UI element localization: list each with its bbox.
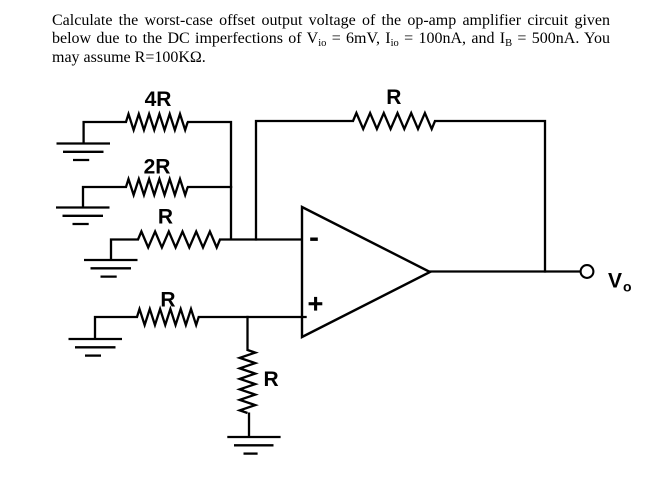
wire: feedback top right lead and down to output [434,121,545,273]
problem statement text [52,12,610,68]
wire: stub below vertical R [248,413,250,437]
wire: feedback branch vertical and top left lead [256,121,354,241]
wire: G4 stub and non-inverting R left lead [95,317,138,338]
svg-text:V: V [608,270,622,293]
wire: inverting input [219,238,303,240]
op-amp U1 triangle [302,207,430,337]
svg-text:R: R [160,289,175,312]
ground G4 (left of non-inverting R) [69,339,123,356]
svg-text:R: R [264,368,279,391]
svg-text:4R: 4R [145,88,172,111]
output terminal circle [581,265,594,278]
resistor 2R [126,179,188,195]
svg-text:R: R [158,206,173,229]
svg-text:R: R [386,86,401,109]
svg-text:o: o [623,279,632,295]
resistor 4R [126,114,188,130]
op-amp plus sign [309,297,323,311]
wire: non-inverting input [198,316,307,318]
wire: G2 stub and 2R left lead [83,187,127,207]
ground G5 (below vertical R) [227,437,280,454]
wire: 2R right lead [187,186,232,188]
ground G3 (left of inverting input R) [84,260,138,277]
resistor R (inverting input) [138,232,220,248]
resistor R (non-inverting input) [137,309,199,325]
resistor R (feedback) [353,113,435,129]
wire: junction down to grounded R [246,316,248,351]
svg-text:2R: 2R [144,156,171,179]
resistor R (grounded, vertical) [240,350,256,413]
ground G1 (left of 4R branch) [57,144,111,161]
ground G2 (left of 2R branch) [56,208,110,225]
wire: output [429,270,581,272]
op-amp minus sign [310,237,318,240]
wire: G3 stub and input R left lead [111,240,139,260]
wire: G1 stub and 4R left lead [84,122,127,143]
label Vo [608,270,632,295]
wire: 4R right lead and node A vertical [187,122,231,240]
